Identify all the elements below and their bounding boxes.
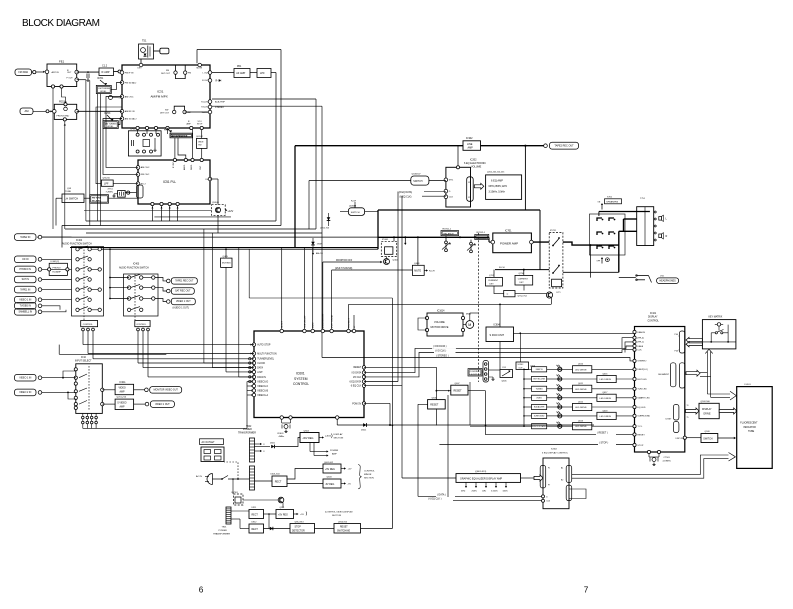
- svg-text:SWITCH: SWITCH: [703, 438, 712, 440]
- svg-text:BGT MD-DSB: BGT MD-DSB: [533, 379, 545, 381]
- svg-text:R51: R51: [237, 66, 242, 68]
- svg-text:CF601: CF601: [277, 433, 284, 435]
- svg-text:7: 7: [584, 586, 589, 595]
- svg-text:(PR-4): (PR-4): [637, 338, 644, 340]
- svg-text:IC401(2): IC401(2): [51, 261, 60, 263]
- svg-text:D601-604: D601-604: [271, 474, 281, 476]
- svg-text:D: D: [546, 496, 548, 498]
- svg-text:MONITOR OFF: MONITOR OFF: [336, 260, 353, 262]
- svg-text:IC601: IC601: [296, 372, 305, 376]
- svg-text:SAMBELL IN: SAMBELL IN: [18, 310, 32, 313]
- svg-text:IC51 PLL: IC51 PLL: [163, 180, 176, 184]
- svg-text:R OUT: R OUT: [202, 80, 209, 82]
- svg-text:Q911: Q911: [280, 507, 286, 509]
- svg-text:BLOCK DIAGRAM: BLOCK DIAGRAM: [22, 18, 100, 29]
- svg-text:SAT IN: SAT IN: [22, 278, 30, 281]
- svg-text:IC10: IC10: [81, 357, 87, 359]
- svg-text:D601: D601: [361, 429, 367, 431]
- svg-text:6 EQ CLK: 6 EQ CLK: [351, 386, 362, 388]
- svg-text:MUTE: MUTE: [414, 269, 421, 272]
- svg-text:3.15kHz, 10kHz: 3.15kHz, 10kHz: [489, 191, 506, 193]
- svg-text:SPEAKERS: SPEAKERS: [606, 201, 618, 204]
- svg-text:IC802: IC802: [551, 449, 558, 451]
- svg-text:INPUT SELECT: INPUT SELECT: [75, 361, 92, 363]
- svg-text:POWER: POWER: [330, 450, 339, 452]
- svg-text:IC31: IC31: [157, 90, 164, 94]
- svg-text:I/O DATA: I/O DATA: [352, 372, 362, 375]
- svg-text:MONITOR/TAPE2: MONITOR/TAPE2: [532, 425, 547, 428]
- svg-text:CLK: CLK: [637, 350, 642, 352]
- svg-text:(AUDIO 1 OUT): (AUDIO 1 OUT): [173, 306, 190, 309]
- svg-text:⟨ RESET ⟩: ⟨ RESET ⟩: [597, 431, 608, 434]
- svg-text:+5V REG: +5V REG: [325, 469, 335, 471]
- svg-text:250Hz: 250Hz: [472, 490, 477, 492]
- svg-text:IC701: IC701: [505, 230, 512, 233]
- svg-text:IF AMP: IF AMP: [102, 71, 110, 74]
- svg-text:M: M: [468, 323, 471, 327]
- svg-text:FL501: FL501: [745, 384, 752, 386]
- svg-text:SUB ON-OFF: SUB ON-OFF: [304, 315, 306, 328]
- svg-text:AM-CH: AM-CH: [316, 252, 323, 255]
- svg-text:Q402: Q402: [393, 260, 399, 262]
- svg-text:F1: F1: [548, 468, 550, 470]
- svg-text:D912: D912: [252, 522, 258, 524]
- svg-text:MT1: MT1: [449, 180, 454, 182]
- svg-text:-5V REG: -5V REG: [325, 484, 334, 486]
- svg-text:Q601,602: Q601,602: [324, 462, 334, 464]
- svg-text:AC IN: AC IN: [196, 475, 202, 478]
- svg-text:ACA TRIP: ACA TRIP: [215, 101, 225, 104]
- svg-text:AMP: AMP: [468, 147, 474, 150]
- svg-text:⟨ O/D DATA ⟩: ⟨ O/D DATA ⟩: [433, 345, 447, 348]
- svg-text:RY901: RY901: [232, 492, 239, 494]
- svg-text:MUTING: MUTING: [222, 263, 231, 265]
- svg-text:FRONT END: FRONT END: [57, 116, 70, 118]
- svg-text:R-CH: R-CH: [429, 271, 435, 273]
- svg-text:ANT IN: ANT IN: [52, 71, 60, 74]
- svg-text:BGT LED: BGT LED: [637, 379, 647, 381]
- svg-text:FM TUNING: FM TUNING: [99, 88, 111, 90]
- svg-text:BALANCE: BALANCE: [444, 233, 455, 236]
- svg-text:L OUT: L OUT: [203, 72, 210, 74]
- svg-text:Q509: Q509: [705, 431, 711, 433]
- svg-text:FM 300Ω: FM 300Ω: [18, 72, 28, 74]
- svg-text:Q603: Q603: [327, 477, 333, 479]
- svg-text:TUNING: TUNING: [536, 389, 544, 391]
- svg-text:F51: F51: [503, 367, 507, 369]
- svg-text:PROTECT: PROTECT: [348, 317, 350, 328]
- svg-text:S VIDEO: S VIDEO: [117, 403, 127, 405]
- svg-text:IC1614: IC1614: [437, 311, 445, 313]
- svg-text:LED DRIVE: LED DRIVE: [575, 426, 587, 428]
- svg-text:LINE: LINE: [467, 143, 473, 146]
- svg-text:IC211: IC211: [120, 382, 127, 384]
- svg-text:AM OSC: AM OSC: [141, 166, 150, 169]
- svg-text:+5V: +5V: [300, 514, 304, 516]
- svg-text:PHONO IN: PHONO IN: [20, 269, 32, 271]
- svg-text:-30V REG: -30V REG: [302, 437, 313, 440]
- svg-text:AM/FM MPX: AM/FM MPX: [151, 94, 168, 98]
- svg-text:MUTI SOUND: MUTI SOUND: [332, 314, 334, 328]
- svg-text:SWITCH: SWITCH: [413, 181, 422, 183]
- svg-text:DEEP B: DEEP B: [536, 369, 543, 371]
- svg-text:RESET: RESET: [430, 404, 439, 407]
- svg-text:I/O CLK: I/O CLK: [353, 377, 362, 379]
- svg-text:Q408: Q408: [414, 263, 420, 265]
- svg-text:T901: T901: [222, 527, 228, 529]
- svg-text:AMP: AMP: [332, 452, 337, 455]
- svg-text:VIDEO: VIDEO: [536, 398, 542, 400]
- svg-text:TAPE1 IN: TAPE1 IN: [20, 288, 30, 291]
- svg-text:MONITOR OFF: MONITOR OFF: [323, 313, 325, 328]
- svg-text:CURRENT: CURRENT: [518, 278, 529, 280]
- svg-text:P43: P43: [675, 351, 678, 353]
- svg-text:6: 6: [199, 586, 204, 595]
- svg-text:IC202: IC202: [470, 158, 477, 161]
- svg-text:PHONO: PHONO: [53, 268, 61, 270]
- svg-text:TAPE1 REC OUT: TAPE1 REC OUT: [175, 280, 194, 283]
- svg-text:Q55,56: Q55,56: [103, 178, 111, 180]
- svg-text:A1: A1: [561, 467, 563, 470]
- svg-text:DATA IN: DATA IN: [257, 376, 266, 379]
- svg-text:LEVEL: LEVEL: [107, 126, 114, 128]
- svg-text:CONTROL: CONTROL: [136, 324, 147, 326]
- svg-text:RESET: RESET: [353, 367, 361, 369]
- svg-text:OUT: OUT: [519, 367, 524, 369]
- svg-text:1kHz: 1kHz: [482, 490, 486, 492]
- svg-text:HEADPHONES: HEADPHONES: [659, 279, 676, 282]
- svg-text:⟨ I/O CLK ⟩: ⟨ I/O CLK ⟩: [435, 349, 446, 352]
- svg-text:VIDEO 1 OUT: VIDEO 1 OUT: [155, 404, 170, 406]
- svg-text:Q608: Q608: [432, 397, 438, 399]
- svg-text:6 EQ DATA: 6 EQ DATA: [349, 380, 361, 383]
- svg-text:VOLUME: VOLUME: [477, 237, 487, 239]
- svg-text:FM: FM: [206, 179, 209, 181]
- svg-text:DET: DET: [138, 68, 143, 70]
- svg-text:LED DRIVE: LED DRIVE: [600, 379, 612, 381]
- svg-text:MOTOR DRIVE: MOTOR DRIVE: [431, 325, 449, 329]
- svg-text:ST-LED: ST-LED: [201, 107, 209, 109]
- svg-text:RESET: RESET: [454, 389, 463, 392]
- svg-text:DISPLAY: DISPLAY: [702, 408, 712, 411]
- svg-text:FE1: FE1: [59, 60, 65, 64]
- svg-text:RESET: RESET: [340, 527, 348, 529]
- svg-text:XT51: XT51: [108, 188, 114, 190]
- svg-text:TRANSFORMER: TRANSFORMER: [213, 533, 230, 536]
- svg-text:Q506/507: Q506/507: [412, 174, 422, 176]
- svg-text:AM: AM: [188, 111, 191, 114]
- svg-text:CONTROL: CONTROL: [364, 471, 375, 473]
- svg-text:T51: T51: [142, 39, 147, 43]
- svg-text:RY751: RY751: [550, 230, 557, 232]
- svg-text:& OUT: & OUT: [471, 374, 478, 376]
- svg-text:MUTE: MUTE: [197, 68, 203, 70]
- svg-text:DANCE: DANCE: [637, 331, 645, 334]
- svg-text:RY401: RY401: [382, 239, 389, 241]
- svg-text:Q211-214: Q211-214: [117, 397, 127, 399]
- svg-text:SURROUND: SURROUND: [534, 416, 545, 418]
- svg-text:LED DRIVE: LED DRIVE: [600, 416, 612, 418]
- svg-text:AM SEPARATION: AM SEPARATION: [172, 135, 188, 138]
- svg-text:F: F: [264, 444, 266, 446]
- svg-text:AMP: AMP: [120, 405, 125, 408]
- svg-text:R: R: [666, 235, 668, 238]
- svg-text:EQ LED: EQ LED: [637, 407, 645, 409]
- svg-text:Q756: Q756: [519, 273, 525, 275]
- svg-text:(6 EQ CLK): (6 EQ CLK): [400, 197, 412, 199]
- svg-text:7.2MHz: 7.2MHz: [106, 192, 114, 194]
- svg-text:AM TUNING: AM TUNING: [105, 122, 117, 125]
- svg-text:POWER: POWER: [243, 429, 252, 431]
- svg-text:Q912,913: Q912,913: [295, 521, 305, 523]
- svg-text:LED DRIVE: LED DRIVE: [600, 398, 612, 400]
- svg-text:SURROUND: SURROUND: [637, 416, 650, 418]
- svg-text:+5V: +5V: [348, 469, 352, 471]
- svg-text:J751: J751: [660, 276, 664, 278]
- svg-text:Q914,915: Q914,915: [338, 521, 348, 523]
- svg-text:(CONTROL-VIDEO) DISPLAY: (CONTROL-VIDEO) DISPLAY: [325, 511, 353, 514]
- svg-text:TRANSFORMER: TRANSFORMER: [238, 432, 256, 435]
- svg-text:MONITOR VIDEO OUT: MONITOR VIDEO OUT: [154, 390, 179, 392]
- svg-text:LED DRIVE: LED DRIVE: [575, 407, 587, 409]
- svg-text:(PR-1): (PR-1): [637, 342, 644, 344]
- svg-text:AUDIO FUNCTION SWITCH: AUDIO FUNCTION SWITCH: [62, 243, 92, 246]
- svg-text:LPF: LPF: [260, 71, 265, 75]
- svg-text:VOLUME: VOLUME: [434, 320, 445, 324]
- svg-text:AM SD ADJ: AM SD ADJ: [125, 117, 137, 120]
- svg-text:R-CH: R-CH: [351, 200, 357, 202]
- svg-text:AMP: AMP: [187, 122, 192, 125]
- svg-text:LPF: LPF: [104, 182, 109, 185]
- svg-text:AUDIO FUNCTION SWITCH: AUDIO FUNCTION SWITCH: [119, 266, 149, 269]
- svg-text:STOP: STOP: [197, 123, 203, 125]
- svg-text:F OUT: F OUT: [67, 78, 74, 80]
- svg-text:RESET: RESET: [637, 434, 645, 436]
- svg-text:4.19MHz: 4.19MHz: [663, 460, 671, 462]
- svg-text:Q202-205,210-255: Q202-205,210-255: [487, 171, 505, 173]
- svg-text:VIDEO1-C: VIDEO1-C: [257, 386, 268, 388]
- svg-text:Q61,62: Q61,62: [196, 136, 204, 138]
- svg-text:RESET: RESET: [282, 320, 284, 328]
- svg-text:CONTROL: CONTROL: [293, 382, 309, 386]
- svg-text:VIDEO1-D: VIDEO1-D: [257, 381, 268, 383]
- svg-text:AM FL: AM FL: [183, 163, 186, 170]
- svg-text:IC101: IC101: [650, 313, 657, 315]
- svg-text:FM: FM: [188, 73, 191, 75]
- svg-text:FLUORESCENT: FLUORESCENT: [740, 423, 758, 425]
- svg-text:DISP ON: DISP ON: [676, 438, 684, 440]
- svg-text:SWITCHING: SWITCHING: [337, 530, 350, 532]
- svg-text:R-CH: R-CH: [499, 267, 505, 269]
- svg-text:DISPLAY: DISPLAY: [648, 316, 658, 319]
- svg-text:DATA: DATA: [257, 367, 263, 370]
- svg-text:RECT: RECT: [275, 480, 282, 483]
- svg-text:10kHz: 10kHz: [503, 490, 508, 492]
- svg-text:STOP: STOP: [295, 527, 302, 529]
- svg-text:IF CNT: IF CNT: [173, 161, 175, 168]
- svg-text:FM: FM: [166, 70, 169, 72]
- svg-text:T0: T0: [687, 405, 689, 407]
- svg-text:RV202-1: RV202-1: [477, 232, 486, 234]
- svg-text:DET: DET: [490, 283, 495, 285]
- svg-text:DIGIT: DIGIT: [666, 419, 672, 421]
- svg-text:RV51: RV51: [98, 78, 104, 80]
- svg-text:OUT: OUT: [67, 72, 72, 74]
- svg-text:Q605: Q605: [502, 380, 508, 382]
- svg-text:VIDEO1-B: VIDEO1-B: [257, 390, 268, 392]
- svg-text:COUNTER: COUNTER: [470, 371, 480, 373]
- svg-text:DT1: DT1: [557, 292, 562, 294]
- svg-text:IC403: IC403: [133, 264, 140, 266]
- svg-text:⟨ STOP ⟩: ⟨ STOP ⟩: [599, 441, 608, 444]
- svg-text:LEVEL: LEVEL: [100, 91, 107, 93]
- svg-text:P40: P40: [675, 334, 678, 336]
- svg-text:CONTROL: CONTROL: [83, 324, 94, 326]
- svg-text:Q755: Q755: [489, 275, 495, 277]
- svg-text:VIDEO 1 IN: VIDEO 1 IN: [19, 299, 31, 301]
- svg-text:VOLUME: VOLUME: [471, 166, 482, 169]
- svg-text:Q53: Q53: [67, 188, 72, 190]
- svg-text:F5: F5: [468, 197, 470, 199]
- svg-text:VIDEO 1 OUT: VIDEO 1 OUT: [176, 301, 191, 303]
- svg-text:RECT: RECT: [252, 514, 259, 516]
- svg-text:OSC: OSC: [200, 165, 202, 170]
- svg-text:(6 EQ DATA): (6 EQ DATA): [399, 191, 413, 194]
- svg-text:RV201-1: RV201-1: [443, 228, 452, 230]
- svg-text:TAPE2 IN: TAPE2 IN: [20, 236, 30, 239]
- svg-text:3.15kHz: 3.15kHz: [491, 490, 498, 492]
- svg-text:KEY MATRIX: KEY MATRIX: [709, 315, 723, 318]
- svg-text:DET: DET: [520, 282, 525, 284]
- svg-text:TV/DBS IN: TV/DBS IN: [20, 305, 32, 307]
- svg-text:D605: D605: [270, 443, 276, 445]
- svg-text:TU-LED: TU-LED: [201, 101, 209, 103]
- svg-text:POWER AMP: POWER AMP: [500, 241, 518, 245]
- svg-text:Q604: Q604: [304, 430, 310, 432]
- svg-text:6 EQ AMP: 6 EQ AMP: [491, 178, 503, 182]
- svg-text:SMART LED: SMART LED: [637, 397, 650, 400]
- svg-text:TUNE: TUNE: [65, 191, 71, 193]
- svg-text:F7: F7: [548, 485, 550, 487]
- svg-text:VIDEO1-A: VIDEO1-A: [257, 394, 268, 397]
- svg-text:T-2 L: T-2 L: [637, 426, 643, 428]
- svg-text:M601: M601: [466, 314, 472, 316]
- svg-text:FM SD ADJ: FM SD ADJ: [125, 81, 136, 84]
- svg-text:FM FL: FM FL: [191, 163, 193, 170]
- svg-text:Q502-506: Q502-506: [701, 401, 711, 403]
- svg-text:SECTION: SECTION: [334, 438, 344, 440]
- svg-text:WIDE: WIDE: [198, 141, 204, 143]
- svg-text:CT501: CT501: [664, 457, 671, 459]
- svg-text:IC302: IC302: [466, 137, 473, 140]
- svg-text:AUTO STOP: AUTO STOP: [257, 344, 271, 347]
- svg-text:CURRENT: CURRENT: [488, 280, 499, 282]
- svg-text:T751: T751: [640, 198, 646, 200]
- svg-text:SAT REC OUT: SAT REC OUT: [175, 290, 191, 293]
- svg-text:AC OUTLET: AC OUTLET: [202, 441, 216, 444]
- svg-text:AM: AM: [24, 109, 28, 113]
- svg-text:≈: ≈: [507, 292, 509, 296]
- svg-text:TUN LED: TUN LED: [637, 389, 647, 391]
- svg-text:OFF: OFF: [597, 261, 602, 263]
- svg-text:SECTION: SECTION: [364, 478, 374, 480]
- svg-text:Q752-754: Q752-754: [518, 296, 528, 298]
- svg-text:LED DRIVE: LED DRIVE: [575, 389, 587, 391]
- svg-text:T602: T602: [246, 426, 252, 428]
- svg-text:DEEP(LO): DEEP(LO): [637, 369, 648, 371]
- svg-text:SW: SW: [198, 145, 201, 147]
- svg-text:C1,2: C1,2: [102, 65, 108, 68]
- svg-text:(-30V): (-30V): [325, 435, 331, 437]
- svg-text:EQ AMP: EQ AMP: [53, 271, 62, 274]
- svg-text:Q607: Q607: [455, 383, 461, 385]
- svg-text:Q592: Q592: [349, 205, 355, 207]
- svg-text:DISPLAY: DISPLAY: [334, 433, 344, 436]
- svg-text:DATA: DATA: [637, 345, 643, 348]
- svg-text:CLOCK: CLOCK: [257, 363, 265, 365]
- svg-text:Q752,753: Q752,753: [320, 227, 330, 229]
- svg-text:LED DRIVE: LED DRIVE: [575, 369, 587, 371]
- svg-text:TUBE: TUBE: [748, 431, 755, 433]
- svg-text:D: D: [449, 191, 451, 193]
- svg-text:+12V: +12V: [228, 210, 234, 213]
- svg-text:CF54: CF54: [130, 129, 136, 131]
- svg-text:FM OSC: FM OSC: [141, 174, 150, 176]
- svg-text:63Hz,250Hz,1kHz: 63Hz,250Hz,1kHz: [489, 186, 508, 188]
- svg-text:FM IF IN: FM IF IN: [125, 72, 134, 74]
- svg-text:SEGMENT: SEGMENT: [658, 374, 669, 376]
- svg-text:ON: ON: [598, 202, 601, 204]
- svg-text:CONTROL: CONTROL: [648, 320, 660, 322]
- svg-text:2SW1: 2SW1: [317, 244, 323, 246]
- svg-text:SYSTEM: SYSTEM: [294, 377, 308, 381]
- svg-text:RECT: RECT: [252, 529, 259, 531]
- svg-text:AM RF IN: AM RF IN: [125, 110, 135, 113]
- svg-text:S RCD UNIT: S RCD UNIT: [490, 333, 505, 337]
- svg-text:Q405: Q405: [223, 256, 229, 258]
- svg-text:(MULTI SOUND): (MULTI SOUND): [335, 268, 353, 270]
- svg-text:IC402: IC402: [76, 240, 83, 242]
- svg-text:R-CH: R-CH: [216, 81, 222, 83]
- svg-text:AF AMP: AF AMP: [236, 72, 245, 75]
- svg-text:DRIVE: DRIVE: [704, 413, 712, 415]
- svg-text:STEREO: STEREO: [637, 361, 646, 363]
- svg-text:B2: B2: [561, 480, 563, 482]
- svg-text:STEREO: STEREO: [215, 107, 224, 109]
- svg-text:TUNNERLEVEL: TUNNERLEVEL: [257, 359, 275, 361]
- svg-text:S751: S751: [607, 196, 613, 198]
- svg-text:AMP: AMP: [120, 391, 125, 394]
- svg-text:TAPE2 REC OUT: TAPE2 REC OUT: [554, 144, 574, 147]
- svg-text:STOP: STOP: [637, 445, 643, 447]
- svg-text:A.MT: A.MT: [257, 371, 263, 374]
- svg-text:⟨ STEREO ⟩: ⟨ STEREO ⟩: [436, 354, 449, 357]
- svg-text:DETECTOR: DETECTOR: [292, 530, 305, 532]
- svg-text:4MHz: 4MHz: [279, 436, 285, 438]
- svg-text:DET OUT: DET OUT: [161, 73, 171, 75]
- svg-text:⟨ DATA ⟩: ⟨ DATA ⟩: [437, 493, 446, 496]
- svg-text:T5: T5: [687, 417, 689, 419]
- svg-text:+5V REG: +5V REG: [278, 514, 288, 516]
- svg-text:MULTI FUNCTION: MULTI FUNCTION: [257, 353, 277, 355]
- svg-text:F: F: [264, 451, 266, 453]
- svg-text:SWITCH: SWITCH: [351, 212, 360, 214]
- svg-text:F1: F1: [468, 182, 470, 184]
- svg-text:POWER: POWER: [219, 530, 228, 532]
- svg-text:CLK: CLK: [546, 501, 550, 503]
- svg-text:INDICATOR: INDICATOR: [743, 426, 756, 429]
- svg-text:DIMM: DIMM: [313, 322, 315, 328]
